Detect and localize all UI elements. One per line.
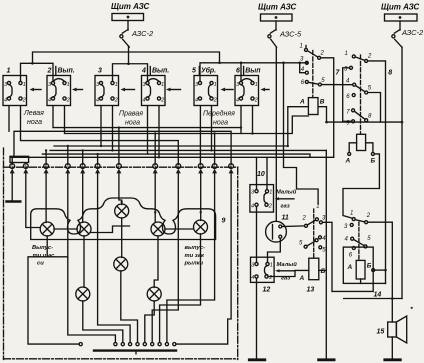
svg-text:13: 13 [307, 287, 315, 294]
node junction 400,122.1 [401, 121, 404, 124]
wire y154.1 horizontal [42, 154, 310, 157]
node: junction at 241,62.8 [240, 62, 243, 65]
relay coil 13 [299, 258, 326, 282]
svg-text:А: А [347, 264, 353, 271]
wire pin4 stub [67, 146, 69, 164]
svg-text:4: 4 [118, 165, 120, 169]
svg-text:10: 10 [257, 171, 265, 178]
limit switch box 6 (nose leg, Вып.) [235, 76, 259, 106]
lamp L1 (left gear) [40, 222, 54, 236]
svg-text:1: 1 [115, 82, 118, 88]
wire pin3 to lamp L1 [45, 173, 47, 222]
wire pin12 to bottom circle 9 [176, 173, 231, 344]
svg-text:5: 5 [154, 165, 156, 169]
svg-text:АЗС-2: АЗС-2 [131, 29, 154, 38]
svg-text:4: 4 [251, 204, 254, 210]
svg-text:2: 2 [366, 213, 371, 219]
arrow into box 5 [221, 88, 234, 92]
wire horn to group13 pivot [282, 225, 304, 228]
dashed actuator group 13 [313, 209, 315, 258]
svg-text:1: 1 [345, 51, 348, 57]
wire group7 pin4 feed [300, 63, 306, 73]
arrow Малый газ 10 [275, 197, 295, 200]
dashed actuator relay 14 [358, 222, 360, 260]
svg-text:Малый: Малый [277, 261, 298, 268]
bus bar stem [135, 352, 137, 354]
svg-text:6: 6 [213, 165, 215, 169]
wire feed staircase to group13 [284, 63, 319, 204]
lamp L3 [151, 222, 165, 236]
svg-text:4: 4 [96, 97, 99, 103]
wire pin3 stub [45, 150, 47, 164]
wire: feed to box1/box2 y63.3 [21, 63, 54, 81]
wire box5 pin4 down to pin 10 [199, 107, 201, 165]
ground G1 [249, 358, 264, 361]
svg-text:1: 1 [23, 82, 26, 88]
switch group 13 lower contact [304, 236, 322, 249]
svg-text:Левая: Левая [23, 110, 44, 117]
svg-text:6: 6 [236, 68, 240, 75]
label Малый газ (box 12) [277, 261, 298, 282]
lamp L4 (right) [194, 220, 208, 234]
wire box3 pin2 down to y150.4 [112, 107, 114, 151]
breaker АЗС-2 (left) [120, 21, 130, 48]
wire ground stem G2 [325, 150, 327, 359]
wire pin8 stub [154, 134, 156, 165]
svg-text:1: 1 [67, 82, 70, 88]
wire lamp LR to bottom circle 5 [145, 301, 154, 343]
motor horn 11 [266, 221, 287, 242]
wire box1 pin4 to bus y131.3 and pin 12 [8, 107, 10, 132]
svg-text:7: 7 [67, 165, 69, 169]
svg-text:9: 9 [45, 165, 47, 169]
svg-text:2: 2 [213, 97, 217, 103]
node junction 393,298.5 [391, 297, 394, 300]
svg-text:АЗС-5: АЗС-5 [279, 30, 302, 39]
svg-text:2: 2 [22, 97, 26, 103]
svg-text:Передняя: Передняя [203, 110, 235, 118]
svg-text:АЗС-2: АЗС-2 [401, 28, 424, 37]
labels group 7 pins [300, 44, 326, 87]
relay 14 contact 3 [350, 223, 353, 226]
arrow into box 3 [121, 88, 135, 92]
arrow into box 6 [261, 88, 270, 92]
wire box14 bottom extension [373, 282, 385, 284]
label Выпусти шасси [32, 245, 55, 267]
speaker 15 [388, 316, 407, 359]
relay coil 7 (А-В) [299, 98, 325, 115]
svg-text:1: 1 [11, 165, 13, 169]
signal lamp panel 9 outline [31, 198, 216, 240]
connector shell over pins 1-2 [10, 156, 29, 162]
connector pins row [10, 164, 234, 174]
wire group8 pin5 [368, 93, 381, 123]
wire y150.4 horizontal to ground stem G2 [50, 149, 326, 151]
switch group 8 (flap handle contacts) [350, 55, 368, 123]
svg-text:Щит АЗС: Щит АЗС [111, 2, 150, 11]
node junction 200.4,157.3 [199, 156, 201, 158]
bottom terminal circles [79, 343, 176, 346]
node junction on LT feed [121, 201, 123, 203]
svg-text:8: 8 [388, 70, 392, 77]
svg-text:1: 1 [255, 82, 258, 88]
switch group 13 upper contact [305, 218, 323, 228]
wire: feed from АЗС-2 left down [128, 47, 130, 64]
svg-text:Б: Б [321, 268, 326, 275]
svg-text:Вып: Вып [245, 68, 261, 75]
lamp LT (top centre) [115, 204, 129, 218]
svg-text:1: 1 [161, 82, 164, 88]
label Правая нога [119, 111, 143, 127]
node junction 155.2,134.9 [154, 132, 156, 134]
svg-text:12: 12 [263, 287, 271, 294]
wire pin5 stub [82, 150, 84, 164]
svg-text:нога: нога [125, 120, 140, 127]
svg-text:9: 9 [222, 218, 226, 225]
wire lamp LM to bottom circle 4 [121, 271, 138, 343]
wire coil7 А lead [288, 107, 309, 146]
svg-text:Вып.: Вып. [58, 68, 75, 75]
svg-text:4: 4 [236, 97, 239, 103]
lamp LM (middle) [114, 257, 128, 271]
svg-text:4: 4 [251, 275, 254, 281]
relay 14 contact 4-5 [351, 237, 367, 248]
node: junction at 32.5,63.3 [31, 62, 34, 65]
arrow into box 1 [30, 88, 42, 92]
svg-text:14: 14 [374, 292, 382, 299]
svg-text:8: 8 [230, 165, 232, 169]
wire relay14 coil bottom [360, 279, 362, 283]
dashed actuator of group 7 [312, 51, 314, 98]
relay 14 terminal [372, 269, 375, 272]
wire box2 pin4 y127.6 to pin 7 [53, 107, 241, 134]
node junction 112.5,150.4 [111, 149, 113, 151]
svg-text:2: 2 [160, 97, 164, 103]
breaker АЗС-2 (right) [392, 21, 402, 47]
wire: feed to box5/box6 and switch group 7 y62.8 [200, 63, 307, 81]
wire y157.3 horizontal long [11, 156, 334, 158]
wire lamps L3-L4 link [165, 228, 194, 230]
limit switch box 3 (right leg) [95, 76, 119, 106]
wire pin6 stub [97, 154, 99, 164]
wire pin8 to lamp L3 [154, 173, 156, 222]
svg-text:4: 4 [143, 97, 146, 103]
busbar Щит АЗС (middle) [261, 14, 293, 21]
relay 14 coil [347, 260, 372, 279]
node: junction at 128.5,63.75 [127, 62, 130, 65]
node junction 101,146 [100, 145, 102, 147]
wire box2 pin2 y134.9 to pin 11 [65, 107, 309, 134]
dashed actuator of group 8 [360, 55, 362, 134]
wire box4 pin2 down to y157.3 [158, 107, 160, 158]
node junction on L3 feed [154, 211, 156, 213]
wire lamp LL to bottom circle 2 [83, 301, 123, 343]
wire box4 pin4 down to y154.1 [147, 107, 149, 155]
wire АЗС-2 right bus down [401, 47, 403, 299]
labels group 8 pins [344, 51, 372, 127]
wire pin6 to bottom circle 3 [98, 173, 131, 342]
node junction 326.5,122.1 [325, 121, 328, 124]
scan speck [411, 307, 413, 309]
wire pin2 to lamp L1 side [26, 173, 41, 227]
svg-text:1: 1 [214, 82, 217, 88]
wire y146 horizontal [54, 145, 288, 147]
svg-text:4: 4 [195, 97, 198, 103]
label Малый газ (box 10) [276, 189, 297, 210]
svg-text:нога: нога [213, 120, 228, 127]
relay 14 contact 6 [352, 247, 355, 250]
ground under pin 1 [7, 173, 21, 201]
svg-text:Вып.: Вып. [152, 68, 169, 75]
wire lamp L3 to lamp LR [154, 236, 158, 288]
svg-text:Малый: Малый [276, 189, 297, 196]
wire lamp L2 to lamp LL [83, 236, 85, 288]
wire coil13 Б to ground stem [319, 269, 327, 271]
wire box1 pin2 y140.6 to pin 9 [21, 107, 179, 165]
relay 14 contact 1-2 [352, 218, 367, 224]
wire group8 pin2 down right [368, 61, 386, 284]
svg-text:А: А [345, 158, 351, 165]
throttle limit switch box 12 [251, 257, 275, 282]
svg-text:6: 6 [25, 165, 27, 169]
wire box10 to box12 [256, 206, 258, 262]
svg-text:1: 1 [350, 211, 353, 217]
relay 14 enclosure [343, 247, 373, 283]
wire inner step L2-LT-L3 [91, 226, 130, 233]
throttle limit switch box 10 [250, 185, 274, 213]
labels group13 upper [302, 204, 327, 222]
svg-text:выпус-: выпус- [185, 245, 205, 251]
wire АЗС-5 down to horn 11 [275, 47, 277, 221]
lamp L2 [77, 222, 91, 236]
wire pin1 stub [11, 157, 13, 164]
svg-text:ти зак: ти зак [185, 253, 205, 259]
switch group 7 (gear handle contacts) [305, 46, 322, 87]
svg-text:газ: газ [281, 204, 290, 210]
scan speck 2 [8, 70, 10, 72]
wire box5 pin2 down to y150.4 [211, 107, 213, 151]
svg-text:1: 1 [300, 44, 303, 50]
wire relay14 bottom step to speaker branch [344, 298, 402, 300]
svg-text:В: В [320, 99, 325, 106]
wire box3 pin4 down to y146 [100, 107, 102, 147]
wire y122 to right bus [327, 121, 403, 123]
svg-text:Б: Б [367, 263, 372, 270]
lamp LR (lower right) [147, 287, 161, 301]
busbar Щит АЗС (right) [385, 14, 418, 21]
svg-text:Выпус-: Выпус- [32, 245, 53, 251]
svg-text:4: 4 [4, 97, 7, 103]
label Левая нога [23, 110, 44, 126]
svg-text:2: 2 [367, 54, 372, 60]
wire feeds into box 10 [256, 157, 258, 189]
wire pin11 to bottom circle 8 [167, 173, 215, 342]
ground G3 under speaker [385, 358, 401, 361]
svg-text:Щит АЗС: Щит АЗС [258, 3, 297, 12]
svg-text:1: 1 [270, 263, 273, 269]
svg-text:5: 5 [192, 68, 196, 75]
svg-text:4: 4 [48, 97, 51, 103]
limit switch box 4 (right leg, Вып.) [142, 76, 166, 106]
label Передняя нога [203, 110, 235, 127]
wire pin4 to bottom circle 1 [68, 173, 116, 342]
svg-text:2: 2 [302, 216, 307, 222]
wire: stub to box6 terminal 3 [240, 63, 242, 81]
svg-text:7: 7 [199, 165, 201, 169]
lamp LL (lower left) [76, 287, 90, 301]
breaker АЗС-5 [268, 21, 277, 47]
svg-text:2: 2 [320, 51, 325, 57]
svg-text:2: 2 [254, 97, 258, 103]
wire pin10 to lamp L4 [200, 173, 202, 220]
limit switch box 5 (nose leg, Убр.) [194, 76, 218, 106]
svg-text:Убр.: Убр. [201, 67, 216, 75]
svg-text:Щит АЗС: Щит АЗС [381, 3, 420, 12]
node junction 287.8,146 [287, 145, 289, 147]
wire relay14 contact2 down [368, 222, 393, 322]
wire coil7 В lead to АЗС-2 right [318, 107, 327, 122]
wire group7 pin2 to vertical 7 [321, 58, 334, 158]
svg-text:7: 7 [81, 165, 83, 169]
wire: feed to box3/box4 y63.75 [113, 64, 148, 81]
svg-text:ти шас: ти шас [33, 253, 56, 259]
wire group7 pin5 to group8 pin4 [321, 84, 352, 86]
wire box6 pin2 down to y133.5 [252, 107, 254, 134]
wire box12 pin4 to ground G1 [256, 278, 258, 359]
wire lamp L1 loop to bottom row [28, 236, 79, 344]
relay coil 8 (А-Б) [345, 134, 376, 164]
svg-text:6: 6 [177, 165, 179, 169]
boundary dash-dot: cockpit panel [4, 148, 238, 360]
wire pin5 to lamp L2 [82, 173, 84, 222]
node: junction at 283.5,62.8 [282, 62, 285, 65]
label выпусти закрылки [184, 245, 205, 267]
pin numbers [11, 165, 232, 169]
svg-text:15: 15 [377, 329, 385, 336]
wire box12 pin2 to coil13 [268, 270, 309, 276]
svg-text:си: си [37, 261, 44, 267]
svg-text:2: 2 [66, 97, 70, 103]
svg-text:2: 2 [47, 68, 52, 75]
node junction 67.8,146 [67, 145, 69, 147]
node junction 97.6,154.1 [96, 153, 98, 155]
wire group13 contact3 to relay14 lower loop [322, 222, 373, 291]
svg-text:А: А [299, 99, 305, 106]
wire coil8 Б to relay14 contact 1 [343, 154, 379, 218]
labels 4 5 6 of relay 14 [345, 236, 372, 259]
node junction 159,157.3 [158, 156, 160, 158]
svg-text:Правая: Правая [119, 111, 143, 118]
wire pin9 to bottom circle 6 [152, 173, 178, 342]
arrow into box 4 [166, 88, 181, 92]
wire lamps L1-L2 link [54, 228, 77, 230]
labels 1 2 3 of relay 14 [344, 211, 371, 231]
node: junction at 299.7,62.8 [298, 62, 301, 65]
ground G2 [319, 358, 335, 361]
svg-text:А: А [299, 275, 305, 282]
svg-text:3: 3 [98, 68, 102, 75]
wire pin7 to lamp LT [119, 173, 122, 204]
arrow into box 2 [72, 88, 83, 92]
limit switch box 1 (left leg, retracted) [3, 76, 27, 106]
wire horn bottom to box 12 [268, 238, 281, 262]
svg-text:Б: Б [371, 158, 376, 165]
wire relay14 terminal to АЗС-2 right bus [375, 269, 386, 271]
svg-text:4: 4 [141, 68, 146, 75]
limit switch box 2 (left leg, released Вып.) [47, 76, 71, 106]
svg-text:нога: нога [27, 119, 42, 126]
wire box6 pin4 stub [240, 107, 242, 128]
wire lamp LT to lamp LM [121, 218, 123, 258]
svg-text:2: 2 [114, 97, 118, 103]
node junction 46.1,150.4 [45, 149, 47, 151]
node: junction at 219.5,62.8 [218, 62, 221, 65]
node junction on L4 feed [200, 211, 202, 213]
svg-text:2: 2 [268, 204, 272, 210]
wire group8 pin3 to pin9 [343, 68, 352, 122]
arrow Малый газ 12 [275, 269, 295, 272]
minus bus bar under terminals [94, 349, 176, 351]
node junction 211.5,150.4 [210, 149, 212, 151]
labels group13 lower [299, 236, 326, 254]
svg-text:11: 11 [282, 215, 289, 222]
svg-text:1: 1 [269, 190, 272, 196]
busbar Щит АЗС (left) [112, 14, 144, 21]
wire: top feed horizontal y52 [33, 52, 220, 63]
svg-text:3: 3 [96, 165, 98, 169]
wire lamp L4 to bottom circle 7 [160, 234, 201, 343]
node junction 82.7,150.4 [82, 149, 84, 151]
wire lamp L1 bottom to pin4 column [47, 256, 68, 258]
